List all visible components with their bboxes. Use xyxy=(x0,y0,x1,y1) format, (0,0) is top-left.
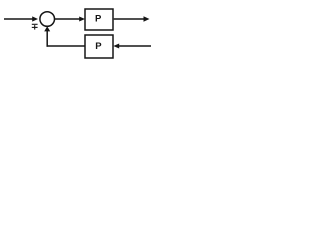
arrowhead into block P2 xyxy=(113,44,119,49)
arrowhead into block P1 xyxy=(79,17,85,22)
wire feedback from right xyxy=(119,45,152,47)
block P2 xyxy=(85,35,113,58)
minus-plus sign xyxy=(32,24,38,29)
wire input line xyxy=(4,18,33,20)
wire block P1 output xyxy=(114,18,145,20)
wire feedback to left xyxy=(47,45,86,47)
wire feedback up xyxy=(46,31,48,47)
block P1 xyxy=(85,9,113,30)
input arrowhead into summing junction xyxy=(32,16,38,21)
arrowhead into summing junction bottom xyxy=(44,26,50,31)
svg-text:P: P xyxy=(95,41,102,52)
summing junction circle xyxy=(40,12,55,27)
wire summing junction to block P1 xyxy=(55,18,80,20)
svg-text:P: P xyxy=(95,13,102,24)
output arrowhead xyxy=(144,16,150,21)
